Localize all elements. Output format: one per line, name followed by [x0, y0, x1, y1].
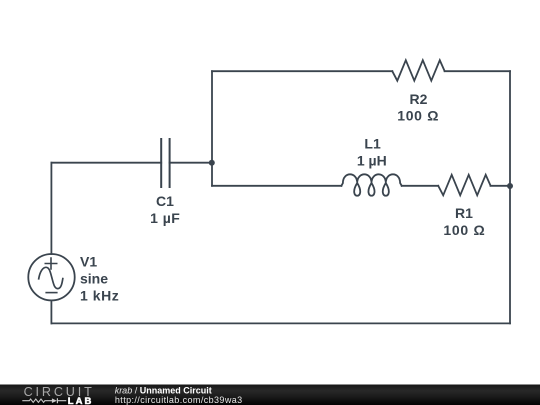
resistor R1 — [438, 175, 490, 196]
svg-text:krab / Unnamed Circuit: krab / Unnamed Circuit — [115, 386, 212, 396]
wire: left vertical below V1 — [50, 300, 52, 323]
wire: middle branch lead from corner to L1 — [212, 185, 341, 187]
logo resistor zigzag — [22, 399, 52, 402]
svg-text:1 µF: 1 µF — [150, 210, 180, 226]
V1 sine wave — [39, 267, 63, 288]
logo diode triangle — [52, 398, 57, 403]
wire: left horizontal to C1 left plate — [51, 162, 161, 164]
wire: bottom rail — [51, 322, 510, 324]
svg-text:C1: C1 — [156, 193, 174, 209]
wire: vertical from top branch through junction A down to middle branch — [211, 71, 213, 186]
wire: C1 right plate to junction A — [170, 162, 212, 164]
wire: top branch left segment — [212, 70, 392, 72]
svg-text:R1: R1 — [455, 205, 473, 221]
svg-text:L1: L1 — [364, 136, 381, 152]
node junction dot B (R1/right rail) — [507, 183, 513, 189]
svg-text:LAB: LAB — [68, 396, 94, 405]
wire: R1 to right rail — [491, 185, 511, 187]
voltage source V1 circle — [28, 254, 74, 300]
V1 plus sign — [45, 258, 56, 269]
V1 minus sign — [46, 292, 57, 294]
svg-text:sine: sine — [80, 271, 108, 287]
svg-text:http://circuitlab.com/cb39wa3: http://circuitlab.com/cb39wa3 — [115, 395, 243, 405]
resistor R2 — [392, 60, 444, 81]
wire: top branch right segment — [445, 70, 510, 72]
wire: L1 to R1 — [402, 185, 439, 187]
svg-text:100 Ω: 100 Ω — [397, 108, 439, 124]
svg-text:V1: V1 — [80, 254, 97, 270]
logo diode wire — [57, 398, 66, 403]
capacitor C1 plates — [161, 139, 169, 187]
svg-text:100 Ω: 100 Ω — [443, 222, 485, 238]
inductor L1 — [341, 174, 401, 195]
svg-text:1 kHz: 1 kHz — [80, 288, 119, 304]
wire: right vertical rail — [509, 71, 511, 323]
svg-text:R2: R2 — [410, 91, 428, 107]
node junction dot A (C1/R2/L1) — [209, 160, 215, 166]
svg-text:1 µH: 1 µH — [357, 153, 387, 169]
wire: left vertical above V1 — [50, 163, 52, 254]
